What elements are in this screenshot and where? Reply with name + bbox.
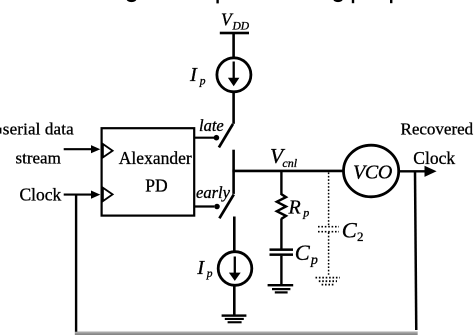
svg-text:p: p (302, 205, 309, 219)
wire late switch to node Vcnl (232, 150, 235, 194)
capacitor Cp (270, 248, 294, 256)
svg-text:I: I (189, 64, 198, 86)
buffer triangle (clock input) (103, 188, 113, 201)
svg-text:cnl: cnl (282, 156, 297, 170)
svg-text:Clock: Clock (413, 148, 455, 168)
label Recovered (401, 120, 474, 139)
svg-text:R: R (288, 196, 301, 218)
svg-text:Recovered: Recovered (401, 120, 474, 139)
svg-text:2: 2 (357, 229, 364, 244)
svg-text:C: C (342, 217, 358, 242)
wire feedback up (left) (75, 195, 77, 332)
wire VCO feedback down (right) (415, 171, 416, 335)
label Vcnl (270, 144, 298, 170)
label VDD (221, 9, 250, 32)
switch late contact dot (214, 135, 220, 141)
label early (196, 183, 231, 202)
wire feedback bottom (gray) (75, 330, 418, 335)
capacitor C2 dotted plates (318, 227, 339, 232)
svg-text:stream: stream (16, 149, 61, 168)
svg-text:I: I (196, 257, 205, 279)
label Clock (left) (20, 184, 62, 204)
switch early blade (219, 194, 233, 218)
switch early contact dot (214, 204, 220, 210)
svg-text:Clock: Clock (20, 184, 62, 204)
label late (199, 116, 224, 135)
buffer triangle (data input) (103, 144, 113, 157)
svg-text:VCO: VCO (353, 161, 392, 183)
label stream (16, 149, 61, 168)
ground (Cp) (268, 284, 294, 294)
caption descender g (clipped line above) (127, 0, 137, 2)
wire PD late output (195, 137, 215, 139)
wire VDD to current source (232, 34, 235, 59)
wire PD early output (195, 205, 215, 207)
switch late blade (219, 124, 233, 147)
svg-text:serial data: serial data (3, 120, 74, 139)
label Cp (295, 240, 318, 268)
oscillator VCO (344, 145, 399, 197)
ground (C2, dotted) (316, 278, 341, 285)
svg-text:PD: PD (145, 176, 167, 196)
svg-text:C: C (295, 240, 311, 265)
wire current source to late switch (232, 92, 235, 124)
wire current source to ground (233, 286, 236, 314)
svg-text:Alexander: Alexander (119, 148, 192, 168)
label C2 (342, 217, 364, 244)
wire Cp to ground (280, 256, 282, 285)
svg-text:late: late (199, 116, 224, 135)
current source Ip (top) (217, 58, 251, 92)
wire node Vcnl to VCO (232, 170, 344, 173)
svg-text:p: p (199, 76, 206, 88)
wire data input arrow (64, 145, 101, 153)
label Rp (288, 196, 310, 219)
label PD (145, 176, 167, 196)
current source Ip (bottom) (218, 252, 252, 286)
capacitor C2 dotted bottom lead (328, 232, 330, 276)
caption descender p (216, 0, 218, 3)
label Alexander (119, 148, 192, 168)
label Ip (top) (189, 64, 206, 88)
svg-text:DD: DD (232, 21, 250, 33)
wire Rp to Cp (280, 218, 282, 249)
label Clock (right) (413, 148, 455, 168)
wire early switch to current source (233, 217, 236, 252)
caption descender g2 (333, 0, 343, 2)
ground (bottom current source) (222, 314, 247, 323)
caption descender p3 (390, 0, 392, 3)
label Ip (bottom) (196, 257, 213, 280)
svg-text:p: p (206, 268, 213, 280)
svg-text:early: early (196, 183, 231, 202)
label serial data (0, 120, 74, 139)
resistor Rp branch wire (top lead) (280, 170, 282, 195)
VDD supply rail (220, 32, 249, 35)
resistor Rp (277, 194, 286, 219)
caption descender p2 (352, 0, 354, 3)
wire clock input arrow (64, 191, 101, 199)
label VCO (353, 161, 392, 183)
wire VCO output arrow (399, 166, 437, 177)
Alexander PD box (102, 128, 195, 215)
capacitor C2 dotted top lead (328, 173, 330, 227)
svg-text:p: p (310, 253, 318, 268)
